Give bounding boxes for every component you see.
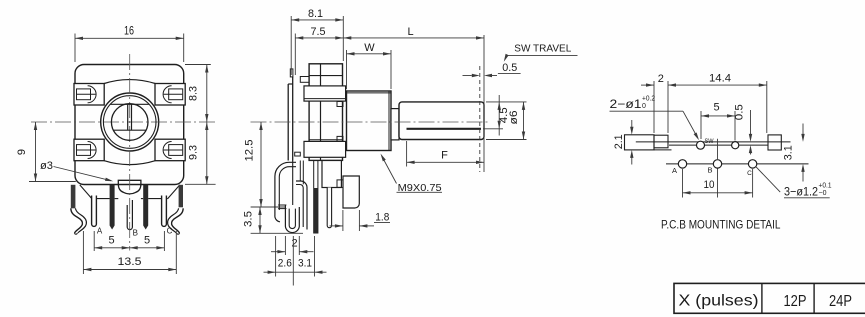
sw hole 1 (697, 141, 705, 149)
pcb long line A (636, 141, 791, 143)
phi3 boss bottom center (118, 180, 141, 194)
side body block (309, 64, 342, 161)
svg-text:3.1: 3.1 (298, 257, 312, 269)
dim 2 slot (641, 84, 654, 86)
sw hole 2 (732, 142, 739, 149)
svg-text:ø3: ø3 (40, 160, 53, 172)
terminal pin side view (327, 188, 331, 228)
side view centerline (251, 121, 491, 123)
vertical centerline front view (129, 54, 131, 251)
svg-text:B: B (707, 166, 712, 175)
switch pin right (black) (143, 185, 148, 230)
svg-text:P.C.B MOUNTING DETAIL: P.C.B MOUNTING DETAIL (661, 218, 781, 232)
pcb left bar (625, 135, 655, 150)
funnel bottom edge segments (92, 198, 110, 200)
svg-text:−0: −0 (819, 190, 827, 197)
switch pin left (black) (110, 185, 115, 230)
hole C (748, 160, 756, 168)
dim 10 extension lines (682, 169, 684, 198)
threaded bushing (347, 91, 392, 151)
SW pin side (black) (314, 161, 318, 234)
dim 16 (75, 37, 184, 39)
dim L (343, 37, 484, 39)
support tab (343, 176, 359, 208)
front view body outline (75, 65, 184, 185)
hole A (678, 160, 686, 168)
body flange band lower (304, 141, 346, 157)
svg-text:F: F (441, 150, 448, 162)
svg-text:8.1: 8.1 (308, 8, 323, 20)
dim 2.6 and 3.1 (264, 271, 327, 273)
mounting hook left bar (71, 185, 76, 209)
svg-text:12P: 12P (784, 293, 807, 310)
terminal pin C (162, 196, 167, 227)
dim 4.5 extension lines (486, 101, 527, 103)
ear top-left (74, 84, 104, 106)
svg-text:SW: SW (705, 138, 715, 145)
svg-text:+0.2: +0.2 (642, 96, 655, 103)
dim 10 (683, 192, 753, 194)
svg-text:2: 2 (291, 238, 297, 250)
horizontal centerline front view (31, 121, 216, 123)
dim 14.4 (668, 84, 767, 86)
bushing outer circle (101, 93, 159, 151)
svg-text:5: 5 (144, 235, 150, 247)
svg-text:5: 5 (713, 102, 719, 114)
dim 16 extension lines (74, 34, 76, 63)
bushing inner circle (103, 96, 156, 149)
pcb left slot (654, 135, 668, 148)
SW travel dashed pushed position (479, 66, 481, 172)
svg-text:W: W (364, 42, 375, 54)
bracket plate (287, 84, 289, 161)
ear bottom-right (155, 139, 185, 161)
svg-text:+0.1: +0.1 (819, 183, 832, 190)
svg-text:5: 5 (108, 235, 114, 247)
shaft end extension line (483, 35, 485, 172)
pcb long line B (sw row) (669, 144, 768, 146)
label 3-phi1.2 tolerance (756, 167, 780, 192)
svg-text:10: 10 (704, 179, 715, 191)
dim 12.5 extension line (251, 206, 286, 208)
svg-text:A: A (672, 166, 677, 175)
upper tab (300, 77, 309, 83)
svg-text:9.3: 9.3 (188, 145, 200, 160)
pcb right slot (768, 135, 781, 150)
bottom funnel slant left (80, 185, 92, 199)
dim 8.3 / 9.3 extension lines (185, 64, 211, 66)
svg-text:ø6: ø6 (508, 111, 520, 125)
shaft flat (dark) (407, 128, 482, 130)
svg-text:C: C (747, 170, 752, 177)
dim phi6 extension line (486, 139, 527, 141)
mounting hook right J (168, 208, 184, 234)
dim F extension line (406, 141, 408, 167)
svg-text:9: 9 (16, 149, 28, 155)
front hook side view (275, 162, 296, 222)
dim 3.5 (259, 207, 261, 233)
shaft flat chord bottom (114, 129, 146, 131)
svg-text:3.1: 3.1 (783, 145, 795, 160)
svg-text:L: L (407, 26, 413, 38)
ear bottom-left (74, 139, 104, 161)
dim W (347, 53, 392, 55)
center foot (322, 161, 341, 188)
bottom funnel slant right (168, 185, 180, 199)
svg-text:12.5: 12.5 (243, 139, 255, 161)
svg-text:SW TRAVEL: SW TRAVEL (514, 43, 571, 55)
dim 3.1 pcb (802, 124, 804, 135)
shaft (399, 102, 484, 140)
dim 5 sw (701, 115, 735, 117)
dim 5 right (130, 247, 165, 249)
lower tab (295, 152, 301, 156)
top bump arc between ears (104, 80, 155, 84)
hook U tip (285, 205, 299, 233)
svg-text:B: B (133, 229, 138, 238)
dim F (407, 161, 484, 163)
notch right lower (337, 136, 343, 141)
svg-text:X (pulses): X (pulses) (679, 293, 759, 310)
terminal pin A (92, 196, 97, 227)
terminal pin B (127, 200, 132, 230)
svg-text:2: 2 (658, 73, 664, 85)
svg-text:2.1: 2.1 (613, 134, 625, 149)
svg-text:3.5: 3.5 (243, 211, 255, 227)
leader phi3 (54, 167, 112, 181)
table divider 2 (813, 283, 815, 313)
bracket lower continuation (292, 161, 294, 206)
svg-text:8.3: 8.3 (188, 86, 200, 101)
dim 8.3 (206, 65, 208, 123)
svg-text:2−ø1: 2−ø1 (610, 97, 642, 111)
shaft flat chord top (111, 103, 149, 105)
rear hook side view (296, 181, 307, 230)
dim 1.8 (330, 225, 343, 227)
dim 13.5 (83, 269, 176, 271)
dim 4.5 (498, 95, 500, 136)
dim W extension lines (346, 50, 348, 89)
pin pitch extension lines (93, 231, 95, 251)
body flange band upper (304, 86, 346, 101)
table divider 1 (761, 283, 763, 313)
svg-text:2.6: 2.6 (278, 257, 292, 269)
dim 8.1 extension lines (290, 16, 292, 75)
shaft slot right line (131, 104, 133, 130)
hole B (713, 160, 721, 168)
svg-text:A: A (97, 227, 103, 236)
svg-text:C: C (167, 227, 173, 236)
svg-text:0: 0 (642, 103, 646, 110)
dim 2.6 / 3.1 extension lines (275, 236, 277, 277)
svg-text:0.5: 0.5 (733, 104, 745, 120)
svg-text:3−ø1.2: 3−ø1.2 (784, 185, 818, 199)
dim 7.5 (295, 37, 343, 39)
dim 9 extension line (29, 181, 76, 183)
pulses table frame (674, 283, 865, 313)
dim 3.5 extension line (251, 232, 303, 234)
rear hook stem lines (299, 161, 301, 181)
dim 5 left (94, 247, 130, 249)
shaft slot left line (127, 104, 129, 130)
svg-text:13.5: 13.5 (118, 256, 142, 268)
dim phi6 (523, 102, 525, 140)
dim 9.3 (206, 122, 208, 184)
hook crossbar (278, 204, 286, 206)
svg-text:16: 16 (124, 24, 134, 38)
notch right upper (337, 102, 343, 107)
shaft circle (111, 104, 148, 141)
mounting hook left J (71, 208, 83, 233)
dim 13.5 extension lines (82, 231, 84, 274)
step between foot and tab (337, 180, 343, 188)
dim 2.1 (631, 120, 633, 127)
svg-text:24P: 24P (829, 293, 852, 310)
dim 2 hook (284, 236, 286, 255)
svg-text:0.5: 0.5 (502, 62, 517, 74)
shaft neck (391, 109, 399, 140)
svg-text:1.8: 1.8 (375, 212, 389, 224)
dim 5 sw extension lines (700, 111, 702, 139)
dim 12.5 (260, 122, 262, 207)
dim 9 (35, 122, 37, 182)
b column line (717, 139, 719, 159)
ear top-right (155, 84, 185, 106)
dim 1.8 extension lines (342, 210, 344, 231)
dim 2 slot extension lines (653, 81, 655, 133)
abc row line (666, 163, 809, 165)
bottom bump arc between ears (104, 161, 155, 165)
dim 8.1 (291, 19, 343, 21)
mounting hook right bar (179, 185, 183, 208)
svg-text:14.4: 14.4 (709, 73, 731, 85)
svg-text:7.5: 7.5 (311, 26, 326, 38)
